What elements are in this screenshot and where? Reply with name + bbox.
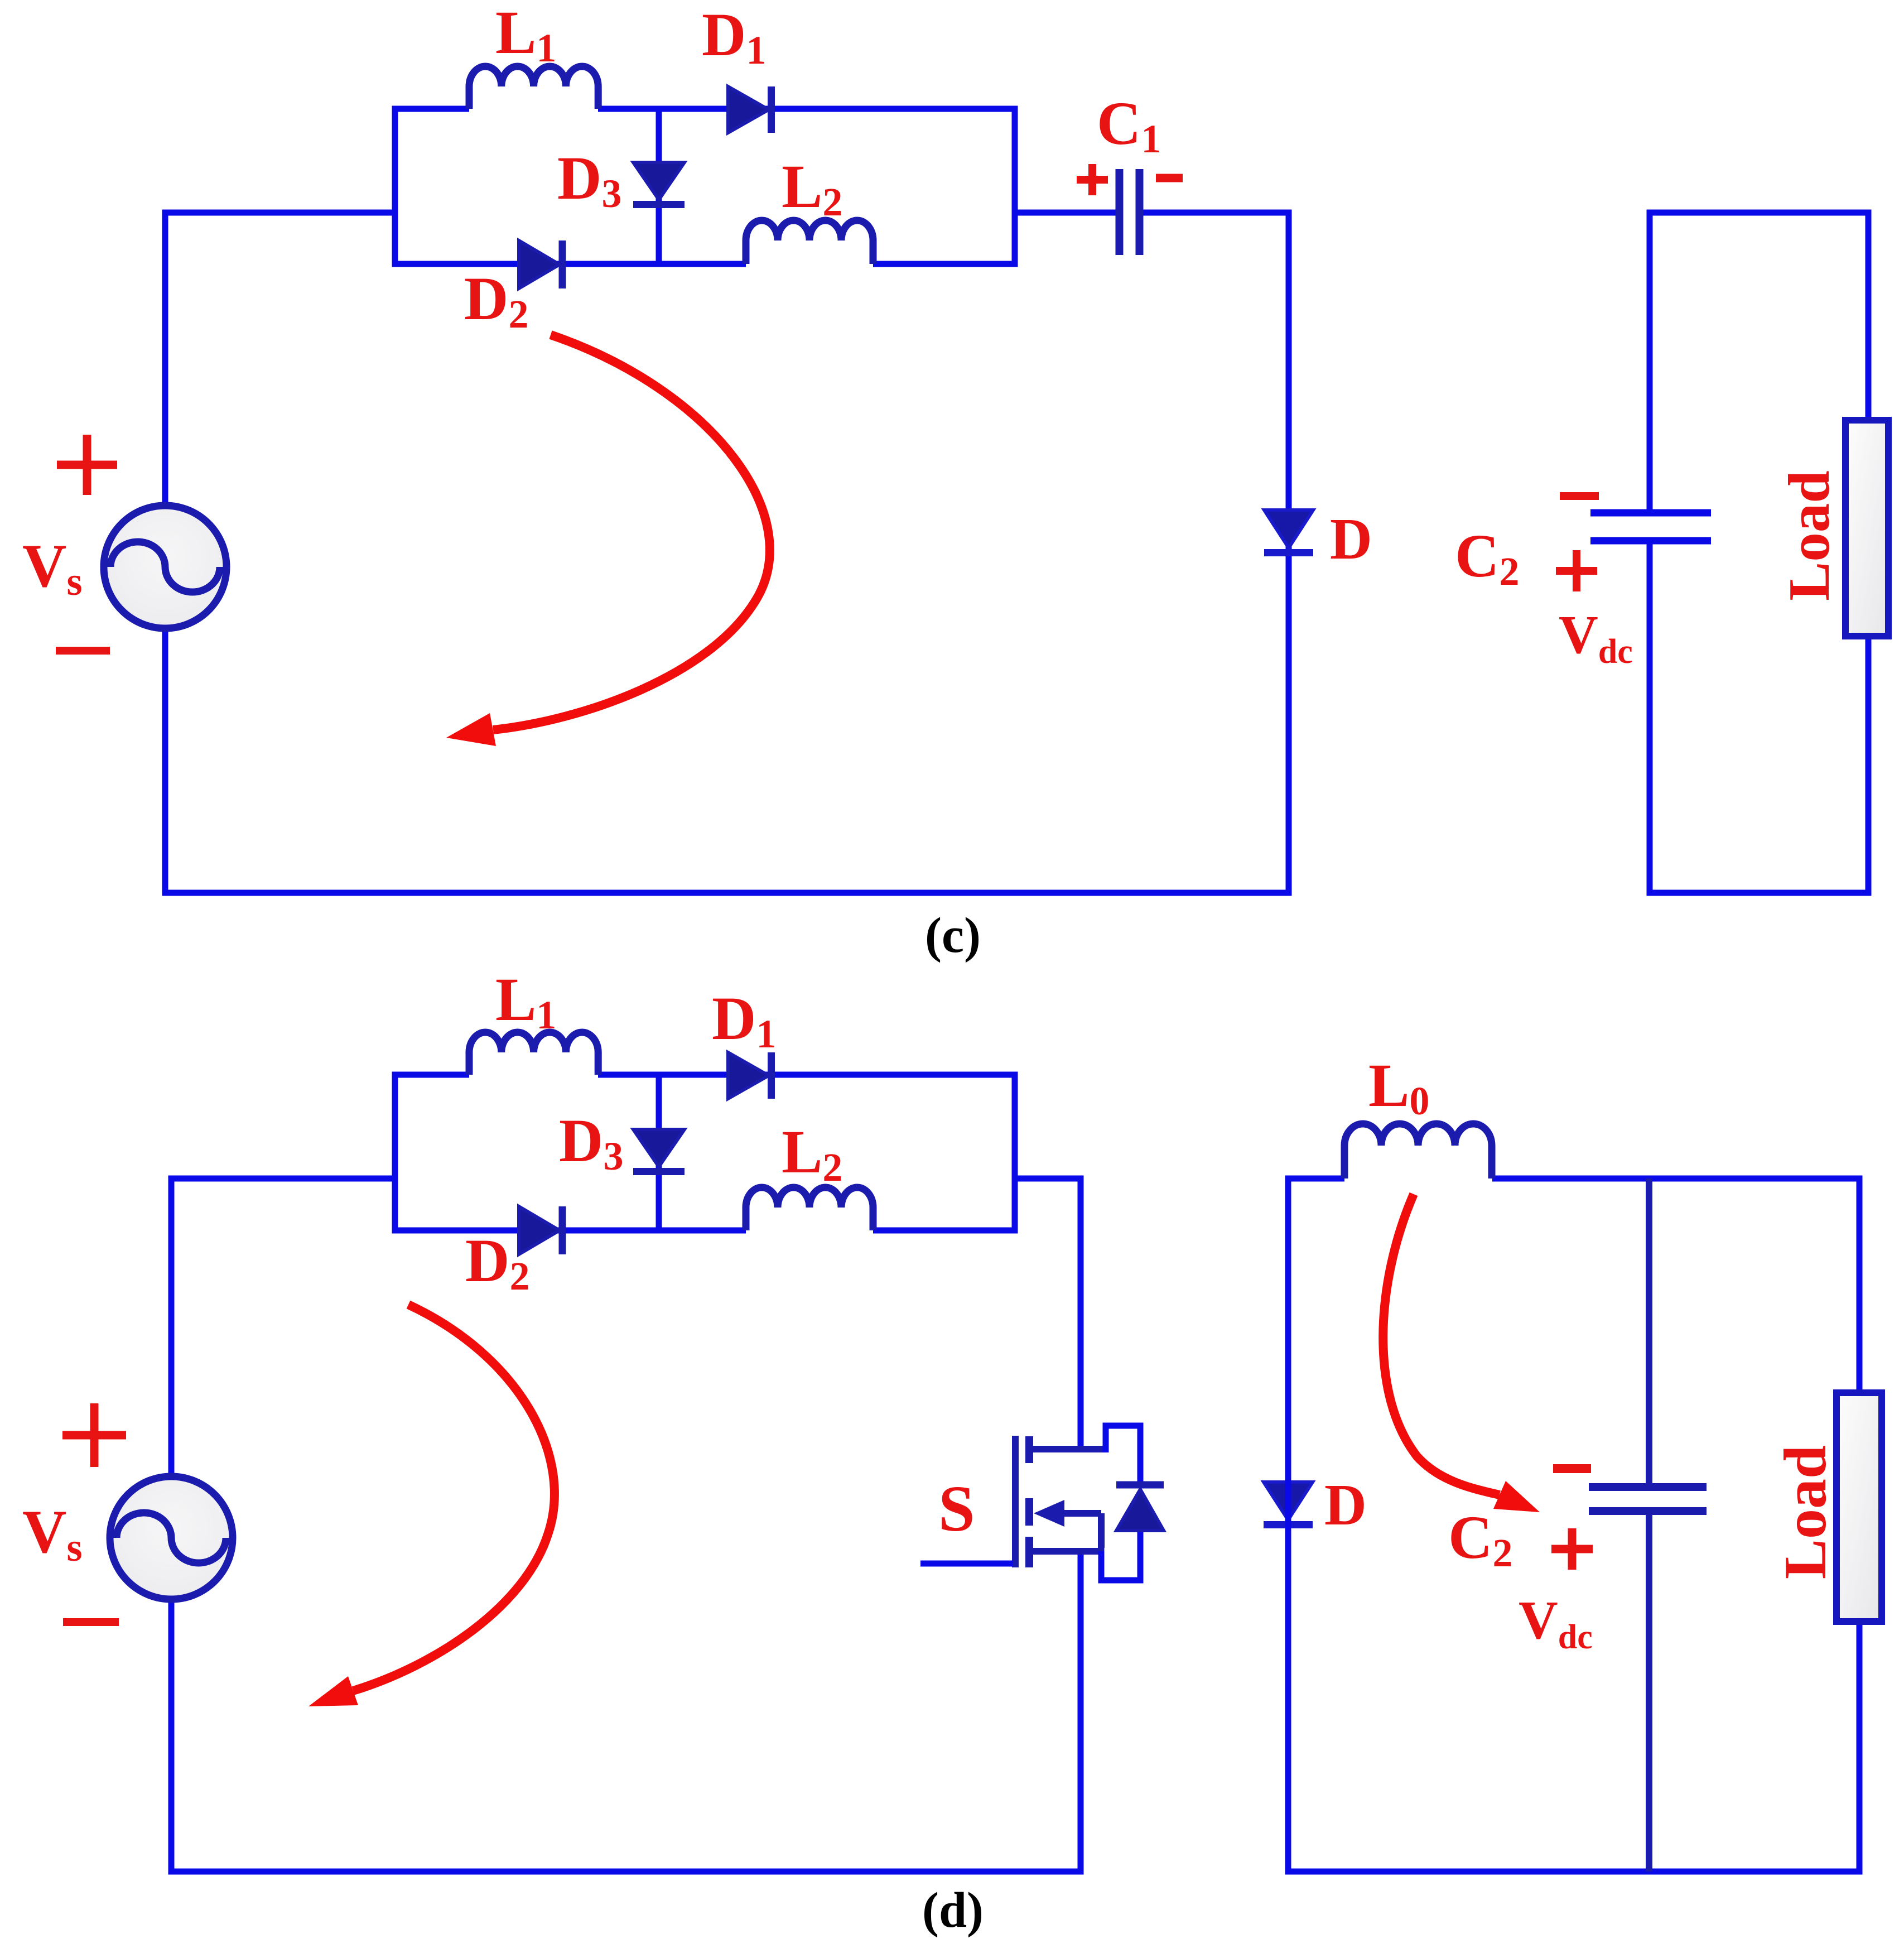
diode D3 (d) [633,1129,685,1172]
svg-text:L1: L1 [495,0,556,70]
label - of C1 (c) [1156,174,1183,182]
label - of Vs (d) [63,1618,119,1626]
current arrow (c) [446,335,770,746]
wire top from source to block [165,213,395,506]
svg-text:(c): (c) [925,908,981,963]
label + of Vs (c) [57,435,117,495]
wire MOSFET source lead [1078,1551,1084,1872]
gate lead [920,1561,1013,1567]
wire block top rail [392,106,1018,112]
label - of C2 (d) [1553,1464,1591,1473]
inductor L2 (c) [746,220,873,264]
current arrow (d) right [1383,1194,1540,1512]
wire block right edge [1012,106,1018,267]
body diode triangle [1116,1489,1164,1531]
svg-text:Vs: Vs [22,532,82,604]
diode D1 (c) [728,86,772,133]
gate bar [1012,1436,1019,1567]
wire top from source to block [171,1178,395,1476]
svg-text:Vdc: Vdc [1519,1590,1593,1656]
substrate arrow [1061,1513,1101,1548]
drain bar [1032,1446,1109,1452]
svg-text:(d): (d) [922,1883,984,1938]
label - of Vs (c) [56,647,110,655]
label + of C2 (c) [1556,550,1597,591]
svg-text:Load: Load [1772,1445,1839,1579]
svg-text:S: S [938,1472,975,1545]
wire: (d) left loop outline [168,1072,1084,1875]
svg-text:Load: Load [1776,470,1842,600]
resistor Load (d) [1836,1393,1882,1622]
wire block bottom rail [392,261,1018,267]
label + of C1 (c) [1077,164,1108,195]
diode D (c) [1264,510,1313,553]
svg-text:D3: D3 [557,144,621,216]
svg-text:L1: L1 [495,965,556,1037]
svg-text:C2: C2 [1455,522,1519,594]
wire: (c) left loop outline [162,106,1292,896]
diode D (d) [1264,1482,1313,1525]
diode D3 (c) [633,162,685,205]
label + of C2 (d) [1551,1528,1593,1570]
capacitor C2 (c) [1590,513,1711,541]
inductor L1 (c) [469,66,598,109]
wire block bottom rail [392,1228,1018,1234]
label - of C2 (c) [1560,492,1599,500]
capacitor C1 (c) [1120,169,1140,255]
wire block exit to C1 [1015,210,1116,216]
AC source Vs (d) [110,1476,233,1599]
svg-text:C2: C2 [1448,1503,1512,1575]
svg-text:C1: C1 [1097,89,1161,161]
label + of Vs (d) [62,1403,126,1467]
wire block right edge [1012,1072,1018,1234]
wire block top rail [392,1072,1018,1078]
wire block exit to MOSFET drain [1015,1176,1081,1450]
inductor L2 (d) [746,1187,873,1230]
svg-text:D1: D1 [712,984,776,1056]
svg-text:D3: D3 [559,1107,623,1178]
svg-text:Vs: Vs [22,1498,82,1570]
svg-text:D: D [1324,1472,1367,1537]
source bar [1032,1548,1105,1555]
body diode bar [1116,1481,1164,1489]
inductor L0 (d) [1344,1124,1492,1178]
svg-text:D1: D1 [702,1,766,73]
resistor Load (c) [1845,420,1888,636]
capacitor C2 (d) [1589,1178,1707,1872]
diode D2 (c) [519,240,562,288]
wire: (d) right loop outline [1285,1178,1863,1872]
wire source bottom to bottom rail [168,1599,175,1875]
body diode branch [1101,1423,1144,1584]
wire D3 branch vertical [656,1075,662,1230]
wire: (c) right loop outline [1647,213,1872,896]
wire C1 to corner and down through diode D [1143,210,1289,893]
svg-text:D: D [1330,506,1372,571]
wire D3 branch vertical [656,109,662,264]
svg-text:L2: L2 [782,152,842,224]
svg-text:Vdc: Vdc [1559,605,1633,671]
wire block left edge [392,106,398,267]
channel bars [1025,1436,1033,1567]
diode D1 (d) [728,1052,772,1099]
wire bottom rail [162,890,1292,896]
inductor L1 (d) [469,1032,598,1075]
wire block left edge [392,1072,398,1234]
wire source bottom to bottom rail [162,628,168,896]
AC source Vs (c) [104,506,226,628]
current arrow (d) left [309,1305,555,1706]
transistor S MOSFET (d) [920,1423,1164,1584]
svg-text:L2: L2 [782,1118,842,1190]
wire bottom rail [168,1869,1084,1875]
svg-text:L0: L0 [1368,1051,1429,1123]
diode D2 (d) [519,1206,562,1254]
